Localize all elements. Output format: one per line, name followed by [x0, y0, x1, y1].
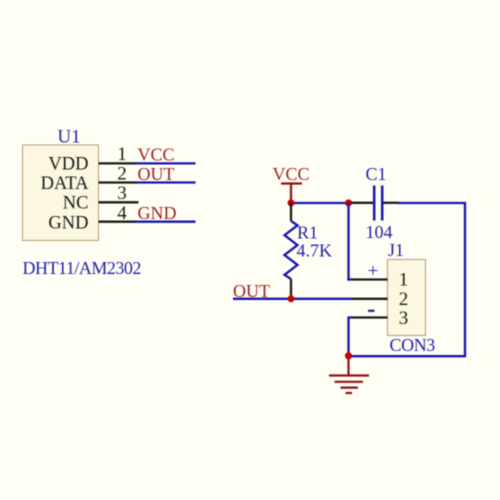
- pin number 2: [117, 163, 127, 184]
- svg-text:+: +: [368, 261, 379, 282]
- svg-text:3: 3: [399, 308, 409, 329]
- J1 pin number 3: [399, 308, 409, 329]
- svg-text:3: 3: [117, 183, 127, 204]
- svg-text:DATA: DATA: [41, 174, 89, 194]
- component U1 body: [23, 145, 99, 241]
- value label DHT11/AM2302: [23, 258, 141, 278]
- svg-text:R1: R1: [297, 223, 318, 243]
- svg-text:VCC: VCC: [272, 164, 309, 184]
- svg-text:GND: GND: [48, 213, 88, 233]
- svg-text:NC: NC: [63, 194, 89, 214]
- net label OUT: [138, 164, 175, 184]
- U1 pin 3 stub (NC): [99, 201, 139, 203]
- J1 pin 3 stub: [352, 316, 388, 318]
- pin number 1: [117, 144, 127, 165]
- svg-text:U1: U1: [57, 127, 80, 148]
- svg-text:GND: GND: [138, 203, 177, 223]
- svg-text:2: 2: [399, 289, 409, 310]
- svg-text:C1: C1: [366, 164, 387, 184]
- svg-text:1: 1: [399, 270, 409, 291]
- designator C1: [366, 164, 387, 184]
- J1 pin 2 stub: [352, 298, 388, 300]
- svg-text:VDD: VDD: [48, 155, 88, 175]
- resistor R1: [285, 203, 298, 299]
- J1 pin 1 stub: [352, 278, 388, 280]
- wire J1 pin3 down to bottom rail: [347, 318, 353, 357]
- wire right rail vertical: [464, 202, 466, 357]
- U1 pin 2 stub: [99, 181, 138, 183]
- connector J1 body: [388, 260, 426, 336]
- svg-text:2: 2: [117, 163, 127, 184]
- svg-text:104: 104: [366, 222, 393, 242]
- svg-text:CON3: CON3: [390, 335, 436, 355]
- designator U1: [57, 127, 80, 148]
- net label VCC: [138, 145, 175, 165]
- wire net OUT from pin 2: [136, 181, 196, 183]
- designator R1: [297, 223, 318, 243]
- junction node VCC/R1: [288, 199, 295, 206]
- wire bottom rail: [349, 355, 467, 357]
- junction node VCC/C1: [345, 199, 352, 206]
- U1 pin 1 stub: [99, 162, 138, 164]
- value 104: [366, 222, 393, 242]
- pin number 4: [117, 203, 127, 224]
- junction node GND: [345, 352, 352, 359]
- power symbol VCC: [272, 164, 309, 203]
- polarity label +: [368, 261, 379, 282]
- net label GND: [138, 203, 177, 223]
- svg-text:OUT: OUT: [233, 281, 270, 301]
- designator J1: [388, 240, 404, 260]
- wire net VCC from pin 1: [136, 162, 196, 164]
- svg-text:OUT: OUT: [138, 164, 175, 184]
- net label OUT: [233, 281, 270, 301]
- J1 pin number 2: [399, 289, 409, 310]
- pin number 3: [117, 183, 127, 204]
- ground symbol: [329, 356, 369, 393]
- pin name VDD: [48, 155, 88, 175]
- svg-text:VCC: VCC: [138, 145, 175, 165]
- junction node OUT/R1: [288, 295, 295, 302]
- pin name NC: [63, 194, 89, 214]
- wire C1 to right rail: [398, 202, 466, 204]
- svg-text:1: 1: [117, 144, 127, 165]
- wire net OUT horizontal: [233, 298, 353, 300]
- polarity label -: [368, 310, 375, 312]
- pin name DATA: [41, 174, 89, 194]
- U1 pin 4 stub: [99, 221, 137, 223]
- capacitor C1: [351, 186, 399, 221]
- svg-text:DHT11/AM2302: DHT11/AM2302: [23, 258, 141, 278]
- wire VCC node horizontal: [291, 202, 349, 204]
- svg-text:4.7K: 4.7K: [297, 241, 333, 261]
- J1 pin number 1: [399, 270, 409, 291]
- svg-text:J1: J1: [388, 240, 404, 260]
- wire net GND from pin 4: [135, 221, 196, 223]
- svg-text:4: 4: [117, 203, 127, 224]
- pin name GND: [48, 213, 88, 233]
- value CON3: [390, 335, 436, 355]
- value 4.7K: [297, 241, 333, 261]
- wire C1 node down to J1 pin1: [347, 203, 353, 281]
